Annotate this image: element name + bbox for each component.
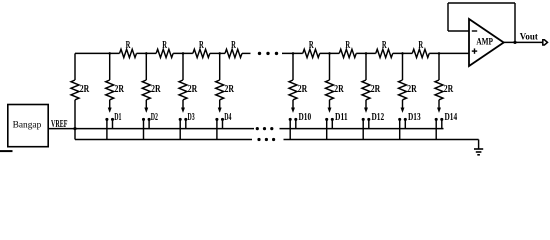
ellipsis dot VREF bus 1	[256, 127, 259, 130]
wire switch pole lead D3	[182, 100, 184, 109]
wire feedback top horizontal	[448, 2, 515, 4]
switch contact dot right D12	[367, 118, 370, 121]
wire 2R branch lead terminator	[74, 53, 76, 80]
switch contact dot left D1	[105, 118, 108, 121]
junction dot top rail branch D10	[292, 52, 295, 55]
wire VREF bus right segment	[280, 128, 444, 130]
resistor 2R branch D14	[435, 80, 443, 100]
wire top rail right segment 2	[320, 52, 340, 54]
wire left contact to ground bus D4	[216, 119, 218, 139]
ground symbol	[474, 149, 483, 155]
svg-text:D13: D13	[408, 111, 421, 123]
wire 2R branch lead branch D4	[219, 53, 221, 80]
junction dot terminator at VREF bus	[73, 127, 76, 130]
wire feedback inverting input	[448, 30, 469, 32]
wire right contact to VREF bus D4	[222, 119, 224, 128]
wire 2R branch lead branch D10	[292, 53, 294, 80]
wire left contact to ground bus D3	[179, 119, 181, 139]
resistor 2R terminator	[71, 80, 79, 100]
junction dot top rail branch D2	[145, 52, 148, 55]
wire terminator to ground bus	[74, 100, 76, 140]
svg-text:R: R	[126, 40, 131, 51]
ellipsis dot VREF bus 3	[270, 127, 273, 130]
svg-text:2R: 2R	[188, 83, 198, 95]
svg-text:2R: 2R	[225, 83, 235, 95]
switch contact dot left D2	[142, 118, 145, 121]
wire switch pole lead D1	[109, 100, 111, 109]
wire top rail left segment 4	[210, 52, 225, 54]
junction dot top rail branch D4	[218, 52, 221, 55]
switch pole arrow D14	[437, 108, 440, 113]
switch contact dot left D11	[325, 118, 328, 121]
wire left contact to ground bus D10	[289, 119, 291, 139]
wire top rail right segment 5	[429, 52, 469, 54]
partial ground mark bottom-left	[0, 150, 13, 152]
wire top rail right segment 3	[356, 52, 376, 54]
svg-text:D11: D11	[335, 111, 348, 123]
svg-text:D4: D4	[224, 111, 231, 123]
wire switch pole lead D4	[219, 100, 221, 109]
svg-text:D10: D10	[299, 111, 312, 123]
resistor 2R branch D4	[216, 80, 224, 100]
svg-text:2R: 2R	[407, 83, 417, 95]
svg-text:R: R	[382, 40, 387, 51]
switch contact dot left D3	[179, 118, 182, 121]
ellipsis dot ground bus 1	[257, 138, 260, 141]
bandgap reference block	[8, 105, 48, 147]
wire left contact to ground bus D2	[143, 119, 145, 139]
wire left contact to ground bus D12	[362, 119, 364, 139]
svg-text:R: R	[418, 40, 423, 51]
switch pole arrow D4	[218, 108, 221, 113]
wire switch pole lead D12	[365, 100, 367, 109]
junction dot top rail branch D12	[365, 52, 368, 55]
wire right contact to VREF bus D13	[404, 119, 406, 128]
resistor R1 (value R)	[120, 49, 137, 57]
switch contact dot right D13	[404, 118, 407, 121]
wire right contact to VREF bus D1	[112, 119, 114, 128]
op-amp plus sign	[472, 48, 477, 53]
svg-text:R: R	[231, 40, 236, 51]
wire right contact to VREF bus D12	[368, 119, 370, 128]
resistor R6 (value R)	[339, 49, 356, 57]
switch contact dot left D14	[435, 118, 438, 121]
wire left contact to ground bus D13	[399, 119, 401, 139]
switch pole arrow D12	[364, 108, 367, 113]
wire 2R branch lead branch D13	[402, 53, 404, 80]
wire VREF bus left segment	[48, 128, 254, 130]
resistor R8 (value R)	[412, 49, 429, 57]
wire right contact to VREF bus D3	[185, 119, 187, 128]
svg-text:2R: 2R	[371, 83, 381, 95]
resistor 2R branch D13	[399, 80, 407, 100]
wire 2R branch lead branch D3	[182, 53, 184, 80]
wire switch pole lead D14	[438, 100, 440, 109]
switch contact dot right D1	[111, 118, 114, 121]
wire 2R branch lead branch D12	[365, 53, 367, 80]
wire top rail left segment 1	[75, 52, 120, 54]
svg-text:R: R	[309, 40, 314, 51]
resistor 2R branch D10	[289, 80, 297, 100]
resistor R5 (value R)	[303, 49, 320, 57]
ellipsis dot ground bus 3	[272, 138, 275, 141]
ellipsis dot VREF bus 2	[263, 127, 266, 130]
switch contact dot right D10	[294, 118, 297, 121]
svg-text:Vout: Vout	[520, 31, 539, 42]
switch pole arrow D11	[328, 108, 331, 113]
wire top rail left segment 2	[137, 52, 157, 54]
wire right contact to VREF bus D2	[148, 119, 150, 128]
wire ground bus drop	[478, 140, 480, 150]
junction dot top rail branch D14	[438, 52, 441, 55]
svg-text:2R: 2R	[444, 83, 454, 95]
wire ground bus left segment	[75, 139, 252, 141]
wire top rail right segment 1	[282, 52, 303, 54]
resistor 2R branch D2	[142, 80, 150, 100]
wire feedback right vertical	[514, 3, 516, 42]
wire switch pole lead D11	[329, 100, 331, 109]
ellipsis dot top rail 2	[266, 52, 269, 55]
svg-text:Bangap: Bangap	[13, 120, 42, 130]
wire op-amp output	[504, 41, 543, 43]
junction dot top rail branch D11	[328, 52, 331, 55]
wire left contact to ground bus D1	[106, 119, 108, 139]
wire right contact to VREF bus D11	[331, 119, 333, 128]
op-amp U1 triangle	[469, 19, 504, 66]
junction dot feedback tap on output	[513, 41, 516, 44]
svg-text:D1: D1	[114, 111, 121, 123]
junction dot top rail branch D3	[182, 52, 185, 55]
svg-text:R: R	[345, 40, 350, 51]
wire top rail right segment 4	[393, 52, 413, 54]
resistor 2R branch D1	[106, 80, 114, 100]
ellipsis dot top rail 1	[258, 52, 261, 55]
resistor 2R branch D3	[179, 80, 187, 100]
op-amp minus sign	[472, 30, 477, 32]
wire right contact to VREF bus D14	[441, 119, 443, 128]
svg-text:AMP: AMP	[476, 36, 493, 47]
resistor 2R branch D11	[326, 80, 334, 100]
resistor R4 (value R)	[225, 49, 242, 57]
switch contact dot right D4	[221, 118, 224, 121]
wire switch pole lead D13	[402, 100, 404, 109]
wire left contact to ground bus D14	[435, 119, 437, 139]
wire top rail left segment 5	[242, 52, 251, 54]
svg-text:2R: 2R	[80, 83, 90, 95]
switch contact dot left D12	[362, 118, 365, 121]
svg-text:2R: 2R	[334, 83, 344, 95]
svg-text:D2: D2	[151, 111, 158, 123]
wire switch pole lead D10	[292, 100, 294, 109]
switch contact dot right D2	[148, 118, 151, 121]
switch pole arrow D1	[108, 108, 111, 113]
svg-text:D14: D14	[445, 111, 458, 123]
switch pole arrow D2	[145, 108, 148, 113]
svg-text:R: R	[199, 40, 204, 51]
junction dot top rail branch D13	[401, 52, 404, 55]
switch pole arrow D13	[401, 108, 404, 113]
svg-text:2R: 2R	[151, 83, 161, 95]
switch pole arrow D3	[181, 108, 184, 113]
resistor R2 (value R)	[156, 49, 173, 57]
wire feedback left vertical	[447, 3, 449, 31]
wire 2R branch lead branch D1	[109, 53, 111, 80]
resistor R7 (value R)	[376, 49, 393, 57]
switch contact dot left D4	[215, 118, 218, 121]
svg-text:D12: D12	[372, 111, 385, 123]
ellipsis dot ground bus 2	[265, 138, 268, 141]
switch contact dot right D11	[331, 118, 334, 121]
ellipsis dot top rail 3	[275, 52, 278, 55]
wire switch pole lead D2	[145, 100, 147, 109]
wire 2R branch lead branch D14	[438, 53, 440, 80]
junction dot top rail branch D1	[108, 52, 111, 55]
switch pole arrow D10	[291, 108, 294, 113]
switch contact dot right D14	[440, 118, 443, 121]
svg-text:R: R	[162, 40, 167, 51]
resistor R3 (value R)	[193, 49, 210, 57]
switch contact dot left D13	[398, 118, 401, 121]
svg-text:2R: 2R	[298, 83, 308, 95]
resistor 2R branch D12	[362, 80, 370, 100]
switch contact dot right D3	[184, 118, 187, 121]
wire 2R branch lead branch D2	[145, 53, 147, 80]
svg-text:2R: 2R	[115, 83, 125, 95]
switch contact dot left D10	[289, 118, 292, 121]
wire left contact to ground bus D11	[326, 119, 328, 139]
wire 2R branch lead branch D11	[329, 53, 331, 80]
output port Vout symbol	[543, 40, 548, 45]
wire right contact to VREF bus D10	[295, 119, 297, 128]
wire top rail left segment 3	[173, 52, 193, 54]
svg-text:D3: D3	[188, 111, 195, 123]
wire ground bus right segment	[284, 139, 479, 141]
